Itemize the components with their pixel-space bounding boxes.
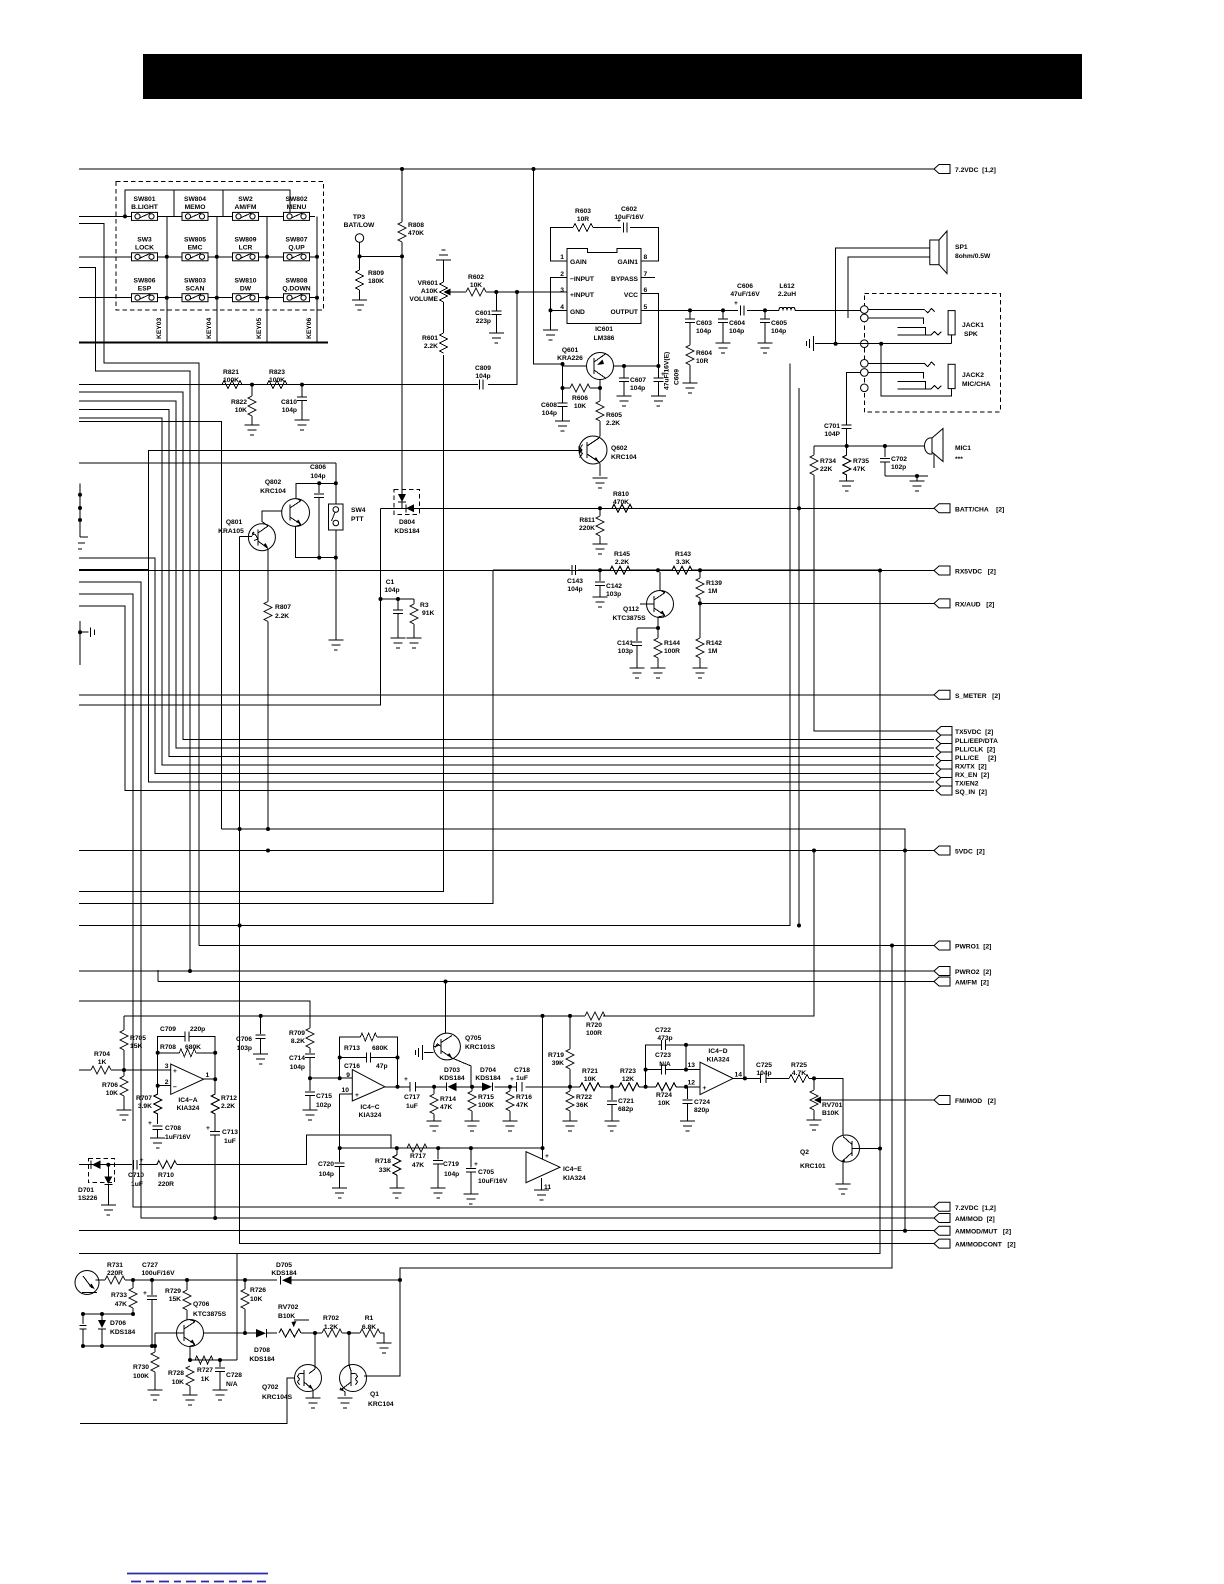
connector PWRO1 [2]	[199, 945, 934, 947]
switch SW803 SCAN	[182, 278, 208, 302]
wire R821 row (to +INPUT)	[79, 293, 517, 384]
svg-text:1uF/16V: 1uF/16V	[165, 1134, 191, 1141]
svg-text:2: 2	[165, 1079, 169, 1086]
wire SP1 top lead	[836, 248, 930, 344]
capacitor C810 104p	[281, 385, 307, 420]
svg-text:12: 12	[688, 1080, 696, 1087]
svg-text:C810: C810	[281, 399, 297, 406]
svg-text:OUTPUT: OUTPUT	[611, 309, 639, 316]
svg-text:C809: C809	[475, 365, 491, 372]
svg-text:KDS184: KDS184	[475, 1075, 501, 1082]
connector 7.2VDC [1,2] lower	[133, 1206, 934, 1208]
svg-text:IC4−D: IC4−D	[708, 1048, 727, 1055]
wire Q2 emitter	[842, 1161, 844, 1185]
svg-text:220R: 220R	[158, 1181, 174, 1188]
svg-text:15K: 15K	[169, 1296, 181, 1303]
svg-text:KEY03: KEY03	[156, 318, 163, 339]
wire jack pin3 return	[798, 388, 800, 926]
connector 5VDC [2]	[79, 850, 934, 852]
resistor R734 22K	[810, 446, 836, 730]
op-amp IC4-C KIA324	[310, 1070, 385, 1119]
connector 7.2VDC [1,2] top flag	[934, 165, 950, 174]
svg-text:3.3K: 3.3K	[676, 559, 690, 566]
svg-text:LM386: LM386	[594, 335, 615, 342]
capacitor C706 103p	[236, 1016, 266, 1054]
svg-text:BYPASS: BYPASS	[611, 276, 639, 283]
wire Q1 emitter to ground	[340, 1388, 345, 1396]
resistor R717 47K	[407, 1144, 427, 1169]
speaker SP1 8ohm/0.5W	[930, 231, 991, 274]
svg-text:100K: 100K	[223, 377, 239, 384]
wire KEY05 column	[266, 216, 268, 342]
svg-text:SW803: SW803	[184, 278, 206, 285]
svg-text:IC601: IC601	[595, 326, 613, 333]
svg-text:R708: R708	[160, 1044, 176, 1051]
svg-text:8.2K: 8.2K	[291, 1038, 305, 1045]
wire Q602 base	[149, 450, 579, 569]
svg-text:C702: C702	[891, 456, 907, 463]
wire AM/FM stub riser	[157, 970, 159, 982]
svg-text:ESP: ESP	[138, 286, 152, 293]
svg-text:R821: R821	[223, 369, 239, 376]
svg-text:KIA324: KIA324	[359, 1112, 382, 1119]
switch SW807 Q.UP	[284, 237, 310, 261]
jack enclosure dashed	[864, 294, 1000, 412]
svg-text:R712: R712	[221, 1095, 237, 1102]
wire rail riser to IC4-E input	[542, 1016, 544, 1160]
svg-text:AM/MOD [2]: AM/MOD [2]	[955, 1216, 995, 1223]
svg-text:+: +	[734, 300, 738, 307]
connector RX/AUD [2]	[700, 602, 934, 604]
svg-text:Q802: Q802	[265, 479, 282, 486]
svg-text:R602: R602	[468, 274, 484, 281]
svg-text:R716: R716	[516, 1094, 532, 1101]
wire Q705 collector to AM/FM	[445, 982, 447, 1034]
svg-text:C722: C722	[655, 1027, 671, 1034]
transistor Q702 KRC104S	[262, 1333, 322, 1401]
svg-text:KRA226: KRA226	[557, 355, 583, 362]
svg-text:R702: R702	[323, 1315, 339, 1322]
svg-text:LOCK: LOCK	[135, 245, 154, 252]
svg-text:1M: 1M	[708, 648, 718, 655]
resistor R713 680K feedback	[340, 1033, 398, 1087]
svg-text:2: 2	[560, 271, 564, 278]
svg-text:C607: C607	[630, 377, 646, 384]
svg-text:13: 13	[688, 1062, 696, 1069]
svg-text:1uF: 1uF	[224, 1138, 236, 1145]
wire key row2	[79, 256, 315, 258]
wire RX_EN routing	[79, 558, 934, 774]
wire IC4-A output	[204, 1053, 216, 1079]
resistor R710 220R	[157, 1161, 177, 1188]
wire pin7 stub	[641, 277, 655, 279]
resistor R809 180K	[356, 256, 385, 300]
svg-text:KEY05: KEY05	[256, 318, 263, 339]
switch SW804 MEMO	[182, 196, 208, 220]
wire Q802 collector riser	[296, 483, 336, 500]
wire +INPUT into IC	[534, 291, 568, 293]
svg-text:C142: C142	[606, 583, 622, 590]
svg-text:C603: C603	[696, 320, 712, 327]
diode D706 KDS184	[98, 1314, 136, 1346]
svg-text:47K: 47K	[115, 1301, 127, 1308]
capacitor C142 103p	[595, 570, 622, 598]
svg-text:SW807: SW807	[286, 237, 308, 244]
op-amp U IC601 LM386 body	[560, 248, 647, 342]
wire RX detect row	[493, 569, 880, 571]
svg-text:14: 14	[735, 1072, 743, 1079]
capacitor C714 104p	[289, 1054, 315, 1091]
capacitor C605 104p	[760, 310, 787, 343]
svg-text:+: +	[143, 1290, 147, 1297]
svg-text:SW806: SW806	[134, 278, 156, 285]
svg-text:10: 10	[342, 1087, 350, 1094]
resistor R605 2.2K	[596, 388, 622, 436]
svg-text:RV702: RV702	[278, 1304, 299, 1311]
svg-text:+: +	[404, 1076, 408, 1083]
wire Q601 emitter down / R605	[599, 380, 601, 389]
svg-text:PWRO2 [2]: PWRO2 [2]	[955, 969, 991, 976]
inductor L612 2.2uH	[778, 283, 796, 310]
svg-text:KRC104: KRC104	[611, 454, 637, 461]
svg-text:R723: R723	[620, 1068, 636, 1075]
wire 7.2V feed to Q601 base	[534, 169, 563, 364]
svg-text:Q112: Q112	[623, 606, 639, 613]
svg-text:MIC/CHA: MIC/CHA	[962, 381, 991, 388]
svg-text:C727: C727	[142, 1262, 158, 1269]
svg-text:470K: 470K	[408, 230, 424, 237]
wire Q601 base bias row	[563, 364, 601, 388]
svg-text:+: +	[545, 1153, 549, 1160]
svg-text:VCC: VCC	[624, 292, 638, 299]
wire Q602 collector/emitter	[599, 436, 600, 476]
resistor R144 100R	[654, 628, 680, 668]
capacitor C701 104P	[824, 423, 852, 446]
wire Q706 emitter row	[190, 1345, 237, 1361]
svg-text:Q2: Q2	[800, 1149, 809, 1156]
svg-text:D708: D708	[254, 1347, 270, 1354]
wire key row3	[79, 297, 315, 299]
svg-text:39K: 39K	[552, 1060, 564, 1067]
svg-text:C1: C1	[386, 579, 395, 586]
capacitor C702 102p	[880, 446, 907, 476]
capacitor at left margin	[80, 1314, 87, 1346]
svg-text:IC4−A: IC4−A	[178, 1097, 197, 1104]
svg-text:R810: R810	[613, 491, 629, 498]
capacitor C727 100uF/16V	[141, 1262, 175, 1346]
resistor R823 100K	[267, 369, 287, 389]
switch SW2 AM/FM	[233, 196, 259, 220]
resistor R724 10K	[656, 1083, 676, 1107]
wire PLL/CLK routing	[79, 401, 934, 748]
resistor R722 36K	[566, 1087, 592, 1121]
svg-text:KEY04: KEY04	[206, 318, 213, 339]
svg-text:R809: R809	[368, 270, 384, 277]
node on 7.2VDC rail at +INPUT feed	[532, 167, 536, 171]
svg-text:KRC104: KRC104	[368, 1401, 394, 1408]
capacitor C718 1uF (series)	[510, 1067, 530, 1092]
capacitor C607 104p	[619, 366, 646, 396]
svg-text:R3: R3	[420, 602, 429, 609]
diode D704 KDS184	[475, 1067, 501, 1091]
wire SW4 net long horizontal	[79, 462, 336, 464]
svg-text:10K: 10K	[658, 1100, 670, 1107]
svg-text:+: +	[474, 1161, 478, 1168]
wire R731 row	[96, 1279, 401, 1281]
svg-text:C724: C724	[694, 1099, 710, 1106]
svg-text:R725: R725	[791, 1062, 807, 1069]
svg-text:1uF: 1uF	[516, 1075, 528, 1082]
resistor R705 15K	[120, 1016, 146, 1070]
resistor R709 8.2K	[289, 1028, 314, 1053]
wire base row y1314	[83, 1313, 133, 1315]
svg-text:10K: 10K	[235, 407, 247, 414]
svg-text:A10K: A10K	[421, 288, 438, 295]
svg-text:KRA105: KRA105	[218, 528, 244, 535]
resistor R602 10K	[458, 274, 534, 296]
wire Q702 emitter to ground	[312, 1390, 314, 1399]
svg-text:180K: 180K	[368, 278, 384, 285]
wire base row y1346	[83, 1345, 155, 1347]
node PWRO2 tap	[188, 969, 192, 973]
resistor R733 47K	[111, 1280, 137, 1314]
svg-text:C601: C601	[475, 310, 491, 317]
svg-text:223p: 223p	[476, 318, 491, 325]
connector AM/MOD [2]	[141, 1217, 934, 1219]
capacitor C708 1uF/16V	[148, 1120, 191, 1141]
testpoint TP3 BAT/LOW	[344, 214, 375, 256]
svg-text:47uF/16V(E): 47uF/16V(E)	[664, 352, 671, 390]
svg-text:+: +	[703, 1085, 707, 1092]
switch SW805 EMC	[182, 237, 208, 261]
svg-text:KDS184: KDS184	[249, 1356, 275, 1363]
svg-text:C602: C602	[621, 206, 637, 213]
svg-text:R606: R606	[572, 395, 588, 402]
svg-text:Q706: Q706	[193, 1301, 210, 1308]
transistor Q601 KRA226	[557, 347, 613, 380]
svg-text:1: 1	[206, 1072, 210, 1079]
wire upper cross y829	[222, 829, 905, 851]
transistor Q7xx partial at margin	[75, 1271, 99, 1295]
svg-text:SQ_IN [2]: SQ_IN [2]	[955, 789, 987, 796]
wire R601 sense return	[79, 355, 444, 892]
microphone MIC1	[925, 429, 972, 469]
svg-text:D704: D704	[480, 1067, 496, 1074]
svg-text:C715: C715	[316, 1093, 332, 1100]
svg-text:+INPUT: +INPUT	[570, 292, 595, 299]
connector RX/TX [2]	[936, 761, 952, 770]
svg-text:TX/EN2: TX/EN2	[955, 780, 979, 787]
svg-text:1uF: 1uF	[406, 1103, 418, 1110]
svg-text:KEY06: KEY06	[306, 318, 313, 339]
svg-text:10R: 10R	[577, 216, 589, 223]
connector AM/MODCONT [2]	[240, 926, 934, 1244]
svg-text:KTC3875S: KTC3875S	[612, 615, 646, 622]
svg-text:100R: 100R	[586, 1030, 602, 1037]
svg-text:R811: R811	[579, 517, 595, 524]
resistor R718 33K	[375, 1148, 401, 1188]
svg-text:AMMOD/MUT [2]: AMMOD/MUT [2]	[955, 1229, 1011, 1236]
wire jack2 pin2 to C701	[847, 372, 861, 425]
diode pair D701 1S226	[78, 1159, 114, 1206]
svg-text:Q.UP: Q.UP	[288, 245, 305, 252]
wire vertical x880 RX5VDC to bottom rail	[79, 571, 880, 1254]
resistor R719 39K	[548, 1016, 574, 1087]
svg-text:PLL/EEP/DTA: PLL/EEP/DTA	[955, 738, 998, 745]
svg-text:473p: 473p	[657, 1035, 672, 1042]
capacitor C721 682p	[607, 1087, 634, 1121]
resistor R810 470K	[598, 491, 799, 512]
svg-text:36K: 36K	[576, 1102, 588, 1109]
svg-text:Q601: Q601	[562, 347, 579, 354]
svg-text:5VDC [2]: 5VDC [2]	[955, 849, 985, 856]
wire pin10 bias drop	[339, 1094, 341, 1148]
svg-text:R807: R807	[275, 604, 291, 611]
wire 7.2VDC top rail	[79, 168, 934, 170]
capacitor C806 104p	[310, 464, 326, 558]
svg-text:C710: C710	[128, 1172, 144, 1179]
svg-text:R704: R704	[94, 1051, 110, 1058]
svg-text:R143: R143	[675, 551, 691, 558]
resistor R716 47K	[506, 1087, 532, 1121]
svg-text:220R: 220R	[107, 1270, 123, 1277]
svg-text:R706: R706	[102, 1082, 118, 1089]
capacitor C609 47uF/16V(E)	[653, 352, 680, 396]
connector PLL/EEP/DTA	[936, 735, 952, 744]
wire OUTPUT row	[641, 309, 864, 311]
svg-text:***: ***	[955, 456, 963, 463]
svg-text:104p: 104p	[542, 410, 557, 417]
svg-text:LCR: LCR	[239, 245, 253, 252]
capacitor C724 820p	[683, 1087, 711, 1121]
svg-text:BAT/LOW: BAT/LOW	[344, 222, 375, 229]
svg-text:C604: C604	[729, 320, 745, 327]
resistor R727 1K	[195, 1356, 213, 1383]
wire Q706 collector output row	[190, 1320, 384, 1343]
svg-text:R705: R705	[130, 1035, 146, 1042]
connector AM/FM [2]	[158, 981, 934, 983]
resistor R720 100R	[585, 1012, 605, 1037]
svg-text:C718: C718	[514, 1067, 530, 1074]
wire RV701 top to Q2 collector	[814, 1078, 843, 1135]
wire keyrow feed B (stub y267.5 to vertical x95.5)	[79, 268, 190, 972]
svg-text:33K: 33K	[379, 1167, 391, 1174]
wire gain loop pin1-pin8	[551, 228, 659, 262]
resistor R142 1M	[696, 603, 722, 668]
resistor R723 12K	[619, 1068, 639, 1091]
svg-text:GAIN: GAIN	[570, 259, 587, 266]
jack JACK1 SPK	[868, 308, 984, 343]
resistor R3 91K	[398, 599, 434, 638]
svg-text:SW805: SW805	[184, 237, 206, 244]
svg-text:104p: 104p	[310, 473, 325, 480]
transistor Q1 KRC104	[339, 1333, 394, 1408]
svg-text:SW804: SW804	[184, 196, 206, 203]
svg-text:R727: R727	[197, 1367, 213, 1374]
wire TP3 to R808	[360, 255, 403, 257]
svg-text:AM/FM: AM/FM	[235, 204, 257, 211]
resistor R730 100K	[133, 1346, 159, 1390]
svg-text:104p: 104p	[630, 385, 645, 392]
resistor R808 470K	[398, 169, 424, 256]
diode D708 KDS184	[249, 1329, 275, 1363]
connector PLL/CLK [2]	[936, 744, 952, 753]
svg-text:C716: C716	[344, 1063, 360, 1070]
capacitor C709 220p feedback	[158, 1026, 216, 1053]
svg-text:4.7K: 4.7K	[792, 1070, 806, 1077]
svg-text:R720: R720	[586, 1022, 602, 1029]
svg-text:D706: D706	[110, 1320, 126, 1327]
switch SW801 BLIGHT	[131, 196, 159, 220]
diode D705 KDS184	[271, 1262, 297, 1285]
svg-text:R717: R717	[410, 1153, 426, 1160]
svg-text:C709: C709	[160, 1026, 176, 1033]
svg-text:9: 9	[346, 1072, 350, 1079]
wire Q802 emitter drop	[296, 525, 336, 558]
svg-text:C701: C701	[824, 423, 840, 430]
svg-text:680K: 680K	[185, 1044, 201, 1051]
capacitor C606 47uF/16V (series)	[730, 283, 760, 315]
resistor R731 220R	[105, 1262, 125, 1284]
resistor R811 220K	[579, 508, 604, 544]
svg-text:R718: R718	[375, 1158, 391, 1165]
svg-text:VOLUME: VOLUME	[409, 296, 438, 303]
svg-text:104p: 104p	[756, 1070, 771, 1077]
svg-text:N/A: N/A	[659, 1061, 671, 1068]
svg-text:C608: C608	[541, 402, 557, 409]
transistor Q801 KRA105	[218, 519, 275, 551]
svg-text:104p: 104p	[444, 1171, 459, 1178]
transistor Q112 KTC3875S	[612, 591, 673, 623]
capacitor C604 104p	[718, 310, 745, 343]
svg-text:Q602: Q602	[611, 445, 628, 452]
svg-text:R142: R142	[706, 640, 722, 647]
svg-text:PLL/CE [2]: PLL/CE [2]	[955, 755, 996, 762]
svg-text:2.2K: 2.2K	[275, 613, 289, 620]
capacitor C601 223p	[475, 292, 501, 333]
svg-text:R605: R605	[606, 412, 622, 419]
svg-text:R714: R714	[440, 1096, 456, 1103]
wire Q112 emitter	[658, 616, 665, 629]
svg-text:10K: 10K	[584, 1076, 596, 1083]
svg-text:C605: C605	[771, 320, 787, 327]
connector AMMOD/MUT [2]	[79, 1230, 934, 1232]
svg-text:MEMO: MEMO	[185, 204, 206, 211]
resistor R139 1M	[696, 570, 722, 603]
capacitor C720 104p	[318, 1148, 345, 1188]
capacitor C717 1uF (series)	[404, 1076, 420, 1110]
svg-text:7: 7	[644, 271, 648, 278]
connector FM/MOD [2]	[934, 1096, 950, 1105]
svg-text:Q.DOWN: Q.DOWN	[282, 286, 310, 293]
resistor R601 2.2K	[422, 333, 448, 353]
capacitor C722 473p feedback	[646, 1027, 745, 1087]
svg-text:+: +	[148, 1120, 152, 1127]
jack pin circles	[861, 306, 869, 314]
svg-text:100K: 100K	[478, 1102, 494, 1109]
svg-text:D804: D804	[399, 519, 415, 526]
connector RX5VDC [2]	[79, 570, 934, 572]
svg-text:R722: R722	[576, 1094, 592, 1101]
svg-text:R707: R707	[136, 1095, 152, 1102]
svg-text:3.9K: 3.9K	[138, 1103, 152, 1110]
capacitor C705 10uF/16V	[466, 1148, 508, 1194]
svg-text:KIA324: KIA324	[563, 1175, 586, 1182]
svg-text:C714: C714	[289, 1055, 305, 1062]
svg-text:KRC104: KRC104	[260, 488, 286, 495]
wire op-amp supply rail	[124, 851, 814, 1016]
svg-text:2.2K: 2.2K	[615, 559, 629, 566]
